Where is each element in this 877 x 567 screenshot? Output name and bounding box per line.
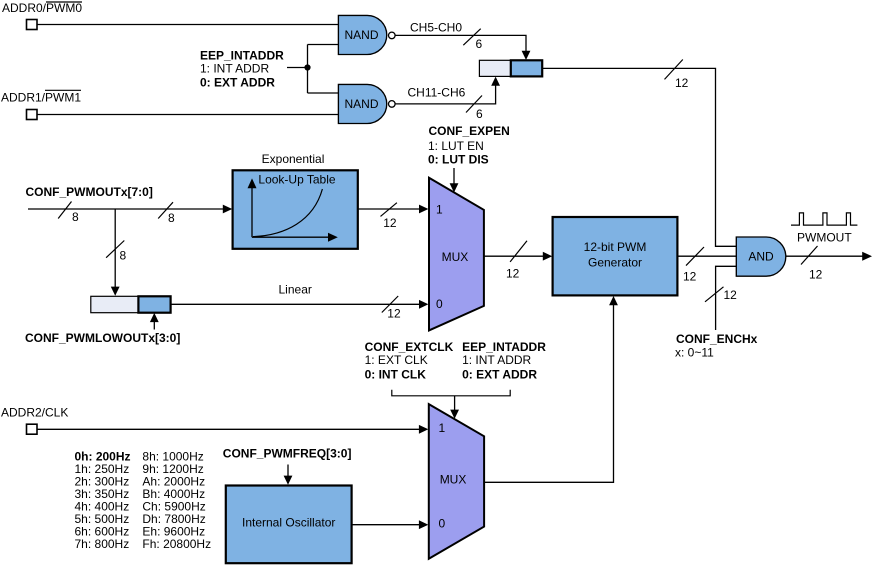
svg-text:12: 12: [809, 268, 823, 282]
svg-text:12: 12: [675, 76, 689, 90]
arrowhead up into register R2 blue: [150, 313, 159, 322]
svg-text:ADDR2/CLK: ADDR2/CLK: [1, 405, 68, 419]
wire EEP_INTADDR stub: [287, 67, 308, 69]
svg-text:6: 6: [476, 107, 483, 121]
wire MUX2 out up to PWM generator: [484, 305, 613, 483]
svg-text:1: INT ADDR: 1: INT ADDR: [462, 353, 531, 367]
svg-text:0: 0: [436, 297, 443, 311]
wire CONF_EXPEN select arrow: [450, 168, 459, 193]
LUT exponential curve: [253, 189, 322, 237]
svg-text:12: 12: [383, 216, 397, 230]
bus slash 12 (register to AND): [665, 60, 689, 91]
arrowhead PWMOUT: [862, 252, 872, 261]
svg-text:CONF_PWMOUTx[7:0]: CONF_PWMOUTx[7:0]: [26, 185, 153, 199]
wire LUT to MUX1 input 1: [358, 208, 420, 210]
NAND U2 inverter bubble: [389, 101, 396, 108]
arrowhead down into register R1 high: [522, 51, 531, 60]
LUT y-axis: [248, 178, 257, 237]
bus slash 8 (vertical branch): [106, 241, 126, 263]
svg-text:0: INT CLK: 0: INT CLK: [365, 368, 427, 382]
svg-text:0: EXT ADDR: 0: EXT ADDR: [462, 368, 537, 382]
bus slash 6 (CH5-CH0): [463, 29, 482, 51]
wire CH5-CH0 from U1 to register: [395, 35, 526, 51]
wire PWMOUT output: [786, 255, 863, 257]
svg-text:1: LUT EN: 1: LUT EN: [428, 139, 484, 153]
node junction dot EEP_INTADDR: [304, 64, 310, 70]
svg-text:0: EXT ADDR: 0: EXT ADDR: [200, 76, 275, 90]
bracket select net: [392, 390, 510, 396]
bus slash 12 (Linear): [382, 296, 401, 321]
svg-text:CONF_PWMLOWOUTx[3:0]: CONF_PWMLOWOUTx[3:0]: [25, 331, 180, 345]
wire CONF_ENCHx to AND gate bottom input: [716, 266, 737, 330]
svg-text:CONF_PWMFREQ[3:0]: CONF_PWMFREQ[3:0]: [223, 447, 352, 461]
svg-text:0: LUT DIS: 0: LUT DIS: [428, 153, 489, 167]
wire CONF_PWMFREQ arrow into oscillator: [284, 465, 293, 485]
wire EEP_INTADDR vertical: [307, 45, 309, 94]
register R2 blue half: [138, 296, 170, 312]
label EEP_INTADDR (bottom): [462, 340, 546, 382]
svg-text:CONF_EXPEN: CONF_EXPEN: [429, 124, 510, 138]
LUT block U3: [233, 170, 358, 249]
label EEP_INTADDR (top): [200, 49, 284, 90]
label CONF_EXTCLK: [365, 340, 454, 382]
svg-text:x: 0~11: x: 0~11: [675, 345, 714, 359]
wire Linear to MUX1 input 0: [171, 303, 420, 305]
svg-text:12: 12: [506, 267, 520, 281]
svg-text:Exponential: Exponential: [262, 152, 325, 166]
svg-text:1: EXT CLK: 1: EXT CLK: [365, 353, 428, 367]
pin ADDR0: [27, 20, 38, 30]
wire CH11-CH6 from U2 to register: [395, 86, 496, 104]
bus slash 12 (MUX1 out): [506, 241, 527, 281]
svg-text:Look-Up Table: Look-Up Table: [258, 172, 335, 186]
wire stub CONF_PWMLOWOUTx up arrow: [153, 318, 155, 330]
svg-text:8: 8: [120, 249, 127, 263]
wire PWM generator to AND gate: [677, 255, 736, 257]
svg-text:MUX: MUX: [442, 250, 469, 264]
wire ADDR0 to NAND U1 input A: [38, 24, 339, 26]
MUX U4: [429, 178, 484, 331]
wire to NAND U2 input A: [308, 92, 339, 94]
wire ADDR2/CLK to MUX2 input 1: [38, 428, 420, 430]
bus slash 12 (PWMOUT): [801, 246, 823, 282]
arrowhead up into PWM generator: [609, 296, 618, 305]
arrowhead down into register R2: [111, 287, 120, 296]
pin ADDR1: [27, 110, 38, 120]
internal oscillator block U7: [226, 486, 352, 564]
svg-text:EEP_INTADDR: EEP_INTADDR: [462, 340, 546, 354]
label ADDR1/PWM1 with overline: [1, 90, 81, 104]
svg-text:EEP_INTADDR: EEP_INTADDR: [200, 49, 284, 63]
wire CONF_PWMOUTx to LUT: [28, 208, 224, 210]
svg-text:12: 12: [683, 270, 697, 284]
NAND gate U1: [338, 15, 386, 54]
wire branch down to register R2: [114, 209, 116, 287]
svg-text:AND: AND: [748, 250, 774, 264]
svg-text:CONF_EXTCLK: CONF_EXTCLK: [365, 340, 454, 354]
svg-text:CH11-CH6: CH11-CH6: [408, 85, 466, 99]
pin ADDR2: [27, 424, 38, 434]
svg-text:Internal Oscillator: Internal Oscillator: [242, 515, 335, 529]
svg-text:0: 0: [439, 516, 446, 530]
wire register R1 to AND gate top input: [542, 68, 736, 246]
wire to NAND U1 input B: [308, 44, 339, 46]
svg-text:Generator: Generator: [588, 256, 642, 270]
svg-text:CONF_ENCHx: CONF_ENCHx: [676, 332, 758, 346]
svg-text:NAND: NAND: [344, 97, 378, 111]
arrowhead up into register R1 low: [491, 77, 500, 86]
svg-text:MUX: MUX: [440, 473, 467, 487]
svg-text:12: 12: [724, 288, 738, 302]
arrowhead into MUX1 input 1: [419, 205, 428, 214]
arrowhead into MUX2 input 1: [419, 425, 428, 434]
svg-text:Linear: Linear: [279, 283, 312, 297]
svg-text:PWMOUT: PWMOUT: [797, 230, 852, 244]
frequency table column 2: [142, 449, 211, 551]
AND gate U6: [736, 237, 786, 276]
svg-text:1: 1: [439, 421, 446, 435]
label CONF_ENCHx: [675, 332, 758, 359]
frequency table column 1: [75, 449, 131, 551]
register R1 light half: [479, 60, 510, 76]
label CONF_EXPEN: [428, 124, 510, 167]
PWM generator block U5: [553, 217, 678, 295]
arrowhead into MUX2 input 0: [419, 520, 428, 529]
bus slash 12 (PWM out): [683, 247, 704, 284]
svg-text:7h: 800Hz: 7h: 800Hz: [75, 537, 130, 551]
svg-text:ADDR1/PWM1: ADDR1/PWM1: [1, 91, 81, 105]
bus slash 8 (left): [58, 202, 79, 225]
waveform pulses symbol: [791, 213, 857, 225]
bus slash 6 (CH11-CH6): [466, 96, 483, 121]
arrowhead into MUX1 input 0: [419, 300, 428, 309]
svg-text:Fh: 20800Hz: Fh: 20800Hz: [142, 537, 211, 551]
wire MUX1 out to PWM generator: [484, 255, 544, 257]
arrowhead into LUT: [223, 205, 232, 214]
register R2 light half: [91, 296, 139, 312]
bus slash 8 (right): [158, 202, 175, 225]
svg-text:CH5-CH0: CH5-CH0: [410, 21, 462, 35]
bus slash 12 (LUT out): [381, 203, 397, 230]
svg-text:12-bit PWM: 12-bit PWM: [584, 240, 647, 254]
svg-text:ADDR0/PWM0: ADDR0/PWM0: [2, 1, 82, 15]
bus slash 12 (CONF_ENCHx): [705, 287, 737, 302]
NAND U1 inverter bubble: [389, 32, 396, 39]
svg-text:8: 8: [168, 211, 175, 225]
svg-text:8: 8: [72, 210, 79, 224]
svg-text:12: 12: [387, 307, 401, 321]
svg-text:6: 6: [476, 37, 483, 51]
svg-text:1: 1: [436, 203, 443, 217]
MUX U8: [429, 404, 484, 559]
wire select arrow into MUX2: [450, 396, 459, 419]
wire ADDR1 to NAND U2 input B: [38, 114, 339, 116]
register R1 blue half: [511, 60, 542, 76]
svg-text:1: INT ADDR: 1: INT ADDR: [200, 62, 269, 76]
LUT x-axis: [252, 233, 338, 242]
arrowhead into PWM generator: [543, 252, 552, 261]
wire oscillator to MUX2 input 0: [352, 524, 420, 526]
svg-text:NAND: NAND: [344, 28, 378, 42]
label ADDR0/PWM0 with overline: [2, 1, 82, 15]
NAND gate U2: [338, 84, 386, 123]
